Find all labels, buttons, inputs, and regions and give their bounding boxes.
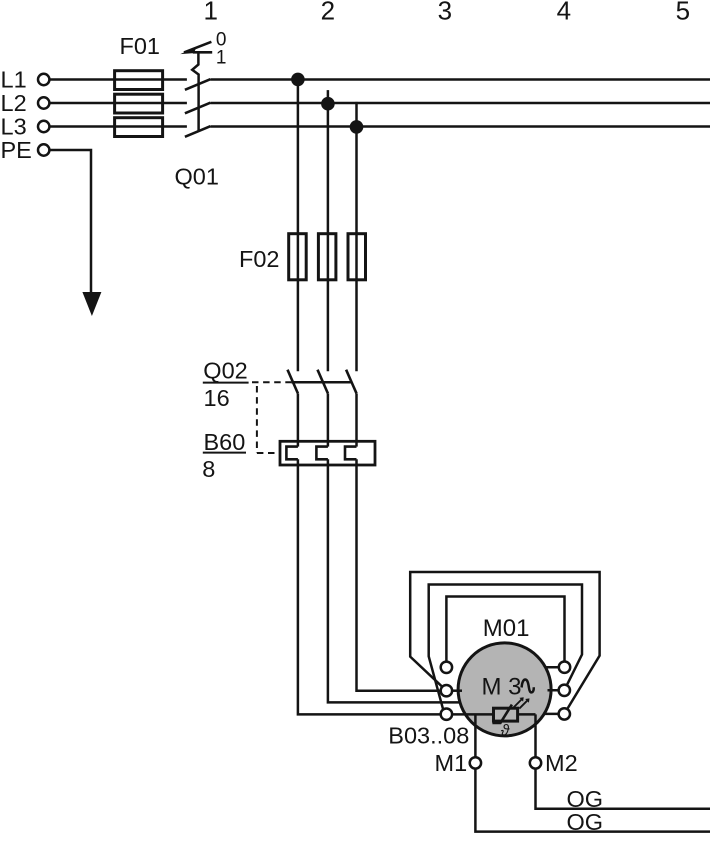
grid column label 5	[676, 0, 690, 26]
net label PE	[1, 137, 32, 163]
wire phase 2 B60 to motor	[328, 459, 465, 702]
terminal L3	[38, 121, 49, 132]
svg-text:M01: M01	[483, 615, 530, 642]
switch Q01 blade pole 1	[185, 79, 211, 90]
junction node dot on L3 with stub	[350, 102, 364, 134]
terminal PE	[38, 144, 49, 155]
wire L2 bus to right edge	[210, 102, 710, 105]
fuse F01 pole 3	[115, 118, 163, 137]
svg-text:F01: F01	[120, 33, 161, 59]
terminal L1	[38, 74, 49, 85]
contactor Q02 linkage bar solid	[291, 381, 351, 384]
wire phase 3 B60 to motor terminal V1	[357, 459, 447, 690]
wire pole 3 Q02 to B60	[355, 393, 358, 446]
wire phase 1 drop to F02 and Q02	[297, 79, 300, 371]
contactor Q02 linkage dashed horizontal	[252, 381, 291, 383]
motor loop middle	[429, 585, 582, 709]
motor terminal stub left B	[446, 689, 462, 692]
label B03..08	[388, 723, 469, 749]
grid column label 2	[321, 0, 335, 26]
overload relay B60 heater pole 1	[286, 447, 298, 460]
motor label M01	[483, 615, 530, 642]
motor terminal stub right A	[545, 666, 565, 669]
svg-text:PE: PE	[1, 137, 32, 163]
wire phase 3 drop to F02 and Q02	[355, 127, 358, 371]
svg-text:1: 1	[216, 48, 227, 69]
linkage dashed horizontal to B60	[257, 452, 280, 454]
wire pole 1 Q02 to B60	[297, 393, 300, 446]
wire L1 input segment	[49, 78, 187, 81]
motor terminal stub right B	[548, 689, 565, 692]
svg-text:M1: M1	[435, 750, 468, 776]
fuse F02 pole 3	[348, 234, 366, 280]
svg-text:Q02: Q02	[203, 358, 247, 384]
thermistor theta label	[501, 723, 510, 740]
linkage dashed vertical to B60	[256, 386, 258, 453]
motor text M 3	[482, 674, 522, 701]
motor terminal right B	[559, 685, 570, 696]
wire phase 2 drop to F02 and Q02	[327, 104, 330, 372]
motor terminal left A	[441, 662, 452, 673]
wire L3 bus to right edge	[210, 125, 710, 128]
wire pole 2 Q02 to B60	[327, 393, 330, 446]
grid column label 1	[203, 0, 217, 26]
switch Q01 linkage with spring	[192, 54, 198, 132]
terminal L2	[38, 97, 49, 108]
motor loop inner	[446, 597, 564, 668]
svg-text:B60: B60	[204, 429, 246, 455]
net label L3	[1, 113, 27, 139]
label M1	[435, 750, 468, 776]
switch Q01 position label 1	[216, 48, 227, 69]
grid column label 3	[438, 0, 452, 26]
terminal M2	[530, 757, 541, 768]
switch Q01 blade pole 2	[185, 103, 211, 114]
svg-text:M2: M2	[545, 750, 578, 776]
junction node dot on L1	[291, 73, 305, 87]
motor terminal stub right C	[544, 713, 564, 716]
motor terminal right C	[559, 708, 570, 719]
svg-text:5: 5	[676, 0, 690, 26]
svg-text:OG: OG	[567, 809, 604, 835]
svg-text:1: 1	[203, 0, 217, 26]
terminal M1	[470, 757, 481, 768]
overload relay B60 heater pole 2	[316, 447, 328, 460]
wire L3 input segment	[49, 125, 187, 128]
wire M1 drop	[475, 714, 710, 831]
motor terminal left B	[441, 685, 452, 696]
switch Q01 position label 0	[216, 29, 227, 50]
thermistor box	[494, 708, 518, 721]
svg-text:L2: L2	[1, 90, 27, 116]
fuse F02 pole 2	[318, 234, 336, 280]
motor M01 body	[458, 643, 551, 736]
fuse F01 pole 1	[115, 71, 163, 90]
svg-text:Q01: Q01	[175, 163, 219, 189]
net label OG lower	[567, 809, 604, 835]
fuse F01 pole 2	[115, 94, 163, 113]
contactor Q02 blade pole 2	[318, 370, 328, 394]
motor loop outer	[410, 572, 599, 714]
motor terminal left C	[441, 709, 452, 720]
net label L2	[1, 90, 27, 116]
net label OG upper	[567, 786, 604, 812]
overload relay B60 box	[280, 441, 375, 465]
thermistor arrows	[514, 697, 530, 708]
contactor Q02 value 16	[204, 385, 230, 411]
fuse F02 pole 1	[289, 234, 307, 280]
wire L2 input segment	[49, 102, 187, 105]
contactor Q02 blade pole 1	[288, 370, 298, 394]
switch Q01 handle	[180, 42, 212, 54]
thermistor lead row	[446, 713, 535, 716]
svg-text:ϑ: ϑ	[501, 723, 510, 740]
svg-text:L1: L1	[1, 66, 27, 92]
svg-text:B03..08: B03..08	[388, 723, 469, 749]
overload relay B60 heater pole 3	[345, 447, 357, 460]
switch Q01 blade pole 3	[185, 126, 211, 137]
svg-text:L3: L3	[1, 113, 27, 139]
contactor Q02 label underlined	[203, 358, 249, 384]
net label L1	[1, 66, 27, 92]
overload relay B60 label underlined	[203, 429, 246, 455]
svg-text:4: 4	[557, 0, 571, 26]
motor terminal right A	[559, 662, 570, 673]
wire L1 bus to right edge	[210, 78, 710, 81]
fuse F01 label	[120, 33, 161, 59]
PE earth arrow	[82, 292, 101, 316]
svg-text:16: 16	[204, 385, 230, 411]
svg-text:2: 2	[321, 0, 335, 26]
motor AC wave symbol	[522, 680, 534, 693]
svg-text:F02: F02	[239, 246, 280, 272]
grid column label 4	[557, 0, 571, 26]
fuse F02 label	[239, 246, 280, 272]
svg-text:M 3: M 3	[482, 674, 522, 701]
contactor Q02 blade pole 3	[346, 370, 356, 394]
junction node dot on L2 with stub	[321, 90, 335, 110]
wire M2 drop	[536, 714, 710, 808]
wire phase 1 B60 to motor terminal W1	[298, 459, 447, 714]
wire PE	[49, 150, 91, 298]
thermistor strike diagonal with foot	[492, 705, 512, 723]
switch Q01 label	[175, 163, 219, 189]
svg-text:3: 3	[438, 0, 452, 26]
svg-text:8: 8	[202, 456, 215, 482]
label M2	[545, 750, 578, 776]
overload relay B60 value 8	[202, 456, 215, 482]
